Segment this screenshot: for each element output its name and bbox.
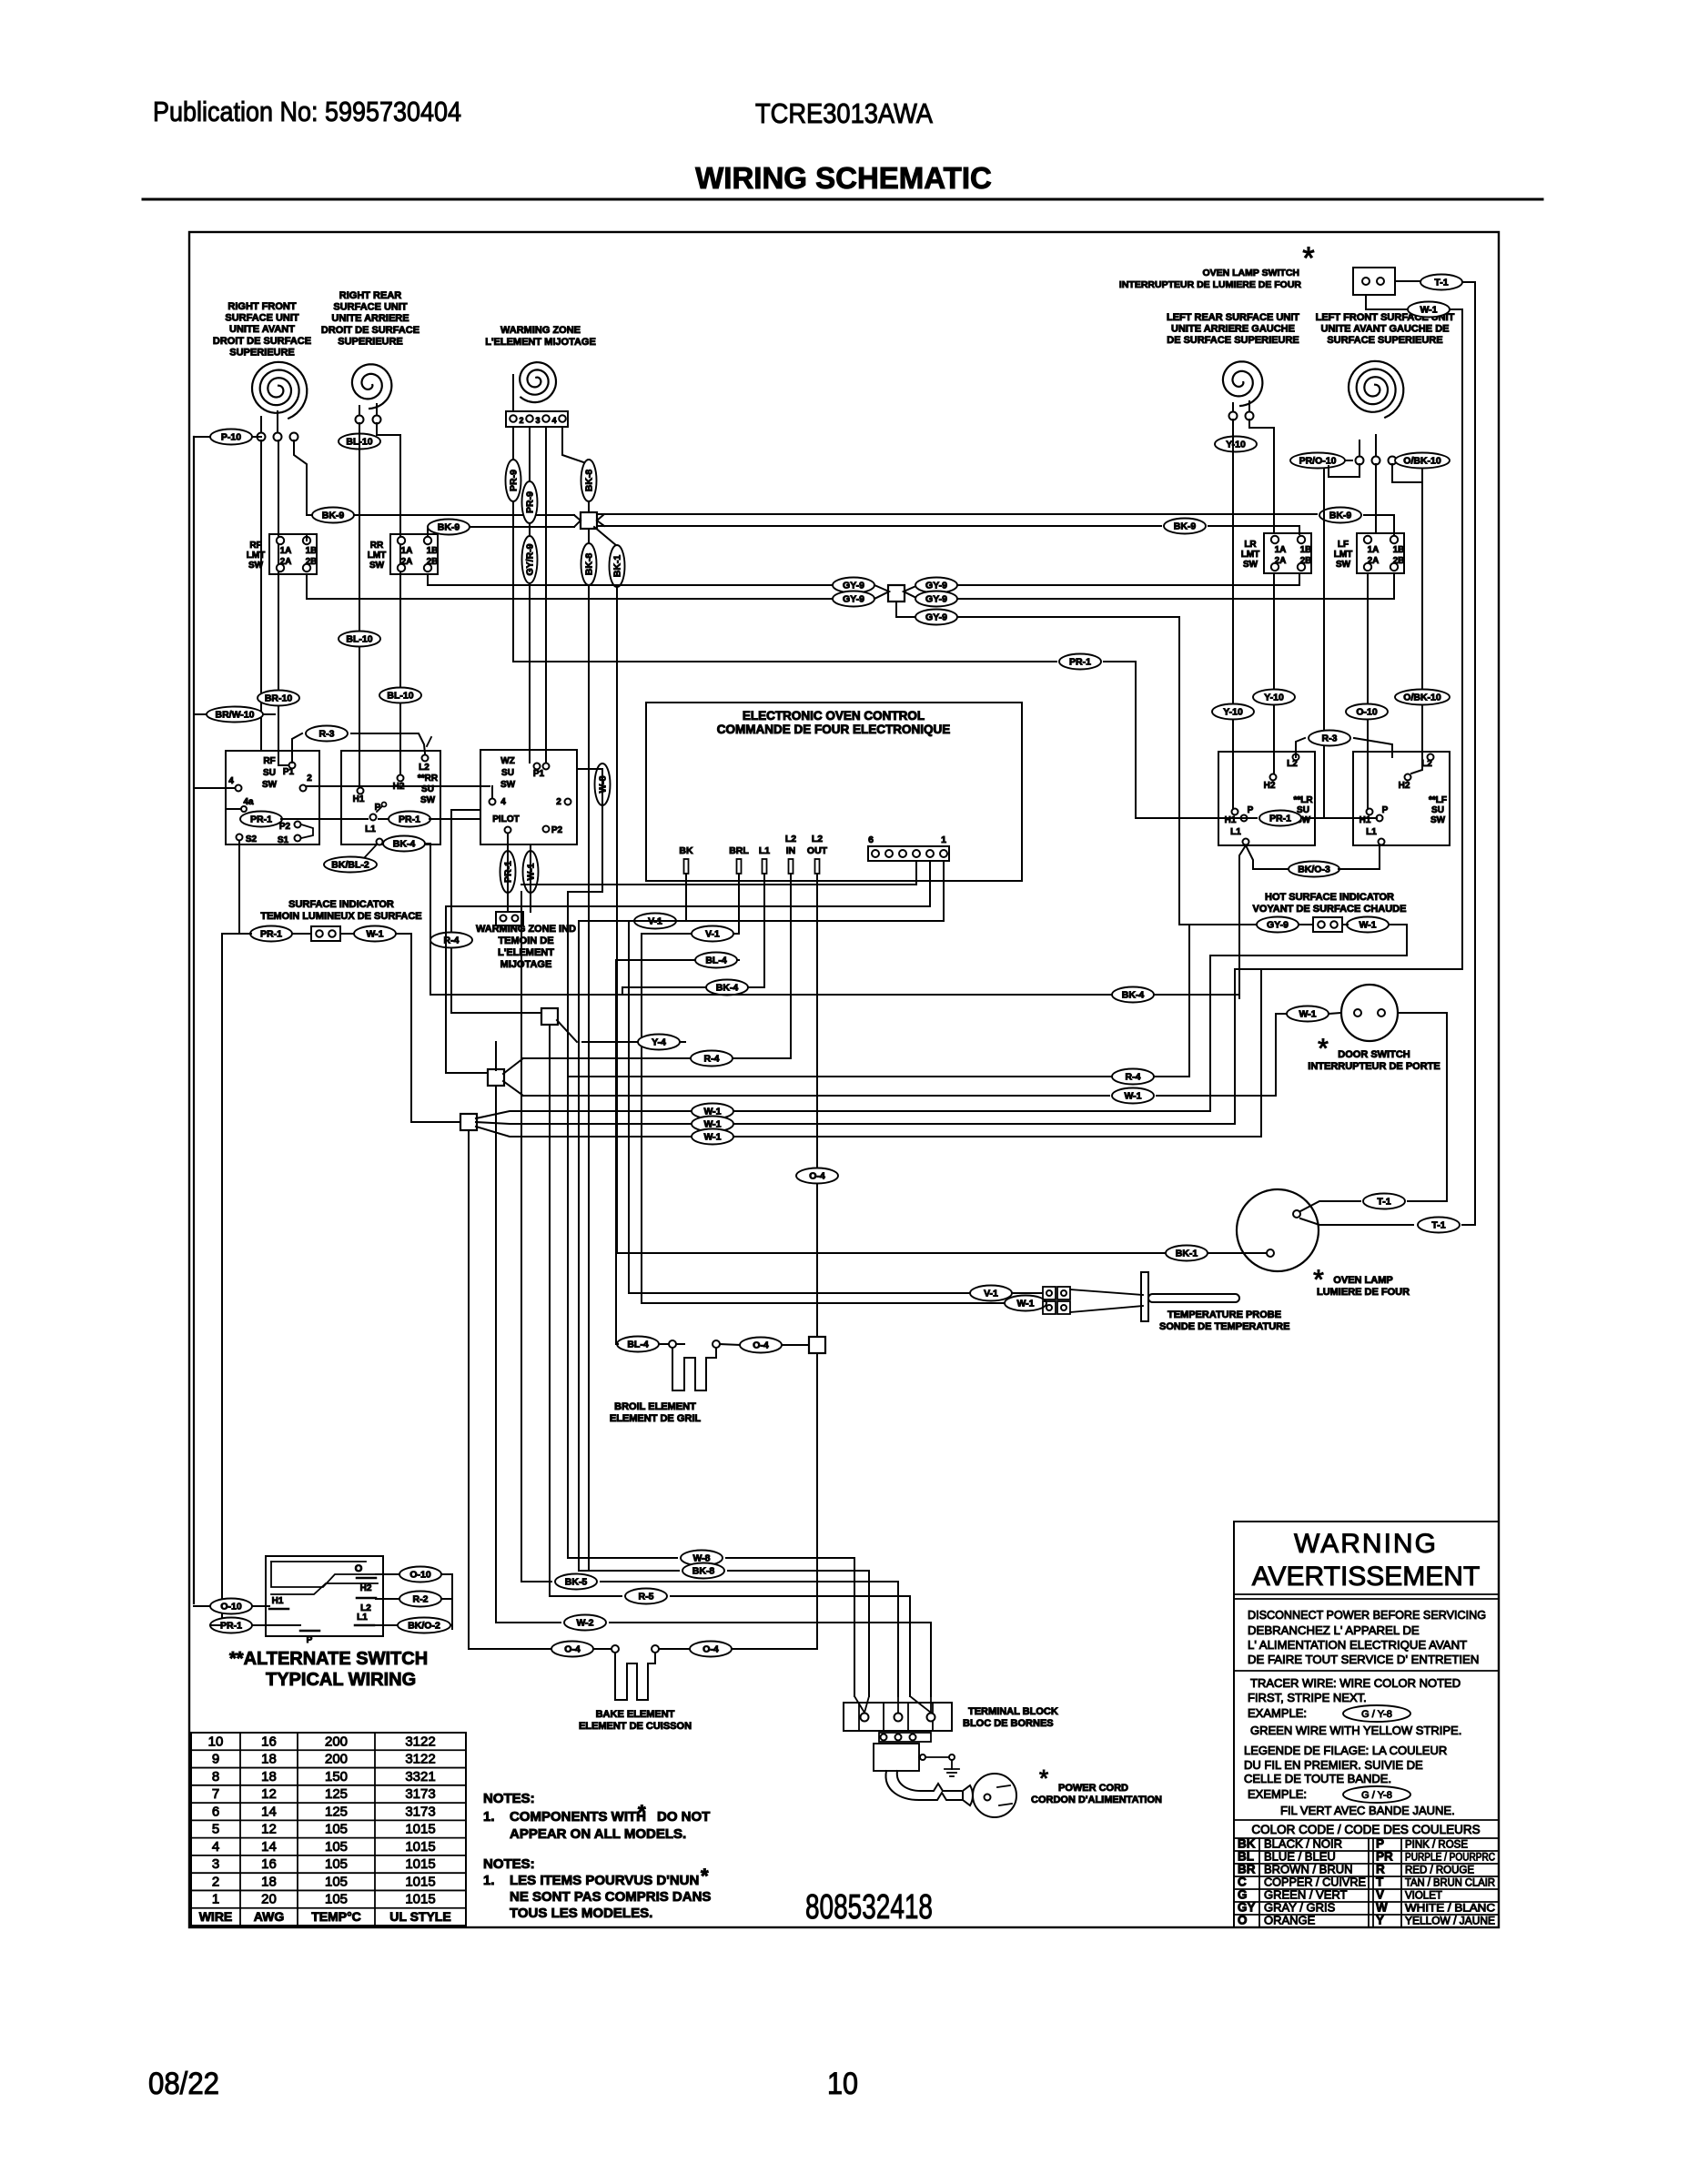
svg-text:16: 16 bbox=[261, 1856, 277, 1872]
svg-text:P: P bbox=[1248, 805, 1254, 815]
svg-text:BK-8: BK-8 bbox=[584, 553, 595, 576]
svg-text:1B: 1B bbox=[1300, 545, 1312, 555]
svg-text:3122: 3122 bbox=[405, 1752, 435, 1767]
svg-text:PR/O-10: PR/O-10 bbox=[1299, 456, 1337, 467]
svg-text:WZ: WZ bbox=[500, 756, 515, 766]
svg-text:SURFACE SUPERIEURE: SURFACE SUPERIEURE bbox=[1327, 335, 1442, 346]
svg-text:W-1: W-1 bbox=[1359, 920, 1376, 931]
svg-text:LF: LF bbox=[1338, 540, 1349, 550]
svg-text:P: P bbox=[307, 1635, 313, 1645]
svg-text:FIRST, STRIPE NEXT.: FIRST, STRIPE NEXT. bbox=[1248, 1691, 1367, 1704]
svg-text:BL-4: BL-4 bbox=[705, 955, 726, 966]
svg-text:10: 10 bbox=[208, 1734, 224, 1749]
svg-text:BAKE ELEMENT: BAKE ELEMENT bbox=[596, 1709, 675, 1720]
svg-text:P: P bbox=[1382, 805, 1389, 815]
svg-text:SUPERIEURE: SUPERIEURE bbox=[338, 336, 403, 347]
svg-text:SW: SW bbox=[500, 780, 516, 790]
svg-text:G / Y-8: G / Y-8 bbox=[1361, 1790, 1392, 1801]
svg-text:6: 6 bbox=[868, 834, 874, 845]
svg-text:*: * bbox=[701, 1865, 709, 1887]
svg-text:Y-10: Y-10 bbox=[1226, 440, 1246, 450]
svg-text:O/BK-10: O/BK-10 bbox=[1403, 693, 1441, 703]
svg-text:GREEN WIRE WITH YELLOW STRIPE.: GREEN WIRE WITH YELLOW STRIPE. bbox=[1250, 1724, 1461, 1737]
svg-text:LUMIERE DE FOUR: LUMIERE DE FOUR bbox=[1317, 1287, 1410, 1298]
svg-text:R-3: R-3 bbox=[319, 729, 335, 740]
svg-text:BL-10: BL-10 bbox=[346, 634, 372, 645]
svg-text:BK/BL-2: BK/BL-2 bbox=[331, 860, 369, 871]
svg-text:VIOLET: VIOLET bbox=[1405, 1890, 1442, 1901]
svg-text:BLACK / NOIR: BLACK / NOIR bbox=[1264, 1836, 1342, 1850]
svg-text:GRAY / GRIS: GRAY / GRIS bbox=[1264, 1900, 1336, 1914]
svg-text:H2: H2 bbox=[1399, 781, 1410, 791]
svg-text:SONDE DE TEMPERATURE: SONDE DE TEMPERATURE bbox=[1159, 1321, 1289, 1332]
svg-text:*: * bbox=[638, 1801, 646, 1824]
svg-text:DE SURFACE SUPERIEURE: DE SURFACE SUPERIEURE bbox=[1167, 335, 1299, 346]
svg-text:TEMPERATURE PROBE: TEMPERATURE PROBE bbox=[1167, 1309, 1281, 1320]
svg-text:G: G bbox=[1238, 1887, 1248, 1901]
svg-text:S2: S2 bbox=[246, 834, 258, 844]
svg-text:BR: BR bbox=[1238, 1862, 1256, 1876]
svg-text:T-1: T-1 bbox=[1434, 278, 1448, 288]
svg-text:**LR: **LR bbox=[1293, 795, 1313, 805]
svg-text:BLOC DE BORNES: BLOC DE BORNES bbox=[963, 1718, 1054, 1729]
svg-text:BK: BK bbox=[1238, 1836, 1256, 1850]
svg-text:DO NOT: DO NOT bbox=[657, 1809, 710, 1825]
svg-text:200: 200 bbox=[325, 1734, 348, 1749]
svg-text:2: 2 bbox=[519, 416, 523, 425]
svg-text:O-10: O-10 bbox=[409, 1570, 431, 1581]
svg-text:GY-9: GY-9 bbox=[925, 612, 947, 623]
svg-text:NOTES:: NOTES: bbox=[483, 1856, 535, 1872]
svg-text:Y-4: Y-4 bbox=[652, 1037, 666, 1048]
svg-text:T-1: T-1 bbox=[1377, 1197, 1390, 1208]
svg-text:Y-10: Y-10 bbox=[1223, 707, 1243, 718]
svg-text:BK-4: BK-4 bbox=[393, 839, 416, 850]
svg-text:OVEN LAMP SWITCH: OVEN LAMP SWITCH bbox=[1202, 268, 1299, 278]
svg-text:BL: BL bbox=[1238, 1849, 1254, 1863]
svg-text:COPPER / CUIVRE: COPPER / CUIVRE bbox=[1264, 1875, 1366, 1888]
svg-text:WIRE: WIRE bbox=[199, 1909, 233, 1924]
svg-text:18: 18 bbox=[261, 1769, 277, 1785]
svg-text:WHITE / BLANC: WHITE / BLANC bbox=[1405, 1903, 1495, 1914]
svg-text:2A: 2A bbox=[1368, 556, 1380, 566]
svg-text:1A: 1A bbox=[280, 546, 292, 556]
svg-text:L1: L1 bbox=[357, 1613, 368, 1623]
svg-text:SW: SW bbox=[420, 795, 436, 805]
svg-text:105: 105 bbox=[325, 1856, 348, 1872]
svg-text:O-4: O-4 bbox=[702, 1644, 719, 1655]
svg-text:DOOR SWITCH: DOOR SWITCH bbox=[1338, 1049, 1410, 1060]
svg-text:6: 6 bbox=[212, 1804, 219, 1819]
svg-text:DE FAIRE TOUT SERVICE D' E: DE FAIRE TOUT SERVICE D' ENTRETIEN bbox=[1248, 1653, 1479, 1666]
svg-text:H1: H1 bbox=[1359, 815, 1371, 825]
svg-text:PR-1: PR-1 bbox=[250, 814, 272, 825]
svg-text:14: 14 bbox=[261, 1839, 277, 1855]
svg-text:SW: SW bbox=[369, 561, 385, 571]
svg-text:PR-1: PR-1 bbox=[260, 929, 282, 940]
svg-text:20: 20 bbox=[261, 1892, 277, 1907]
svg-text:1015: 1015 bbox=[405, 1822, 435, 1837]
svg-text:O: O bbox=[355, 1563, 363, 1574]
svg-text:2B: 2B bbox=[1393, 556, 1405, 566]
svg-text:9: 9 bbox=[212, 1752, 219, 1767]
svg-text:1A: 1A bbox=[1275, 545, 1287, 555]
svg-text:W-1: W-1 bbox=[1420, 305, 1437, 316]
svg-text:DISCONNECT POWER BEFORE SERVIC: DISCONNECT POWER BEFORE SERVICING bbox=[1248, 1608, 1486, 1622]
svg-text:AVERTISSEMENT: AVERTISSEMENT bbox=[1252, 1562, 1481, 1592]
svg-text:**RR: **RR bbox=[418, 773, 439, 784]
svg-text:L1: L1 bbox=[1366, 827, 1377, 837]
svg-text:H1: H1 bbox=[272, 1596, 284, 1606]
svg-text:16: 16 bbox=[261, 1734, 277, 1749]
svg-text:UNITE ARRIERE GAUCHE: UNITE ARRIERE GAUCHE bbox=[1171, 324, 1295, 335]
svg-text:H2: H2 bbox=[1264, 781, 1276, 791]
svg-text:1B: 1B bbox=[306, 546, 318, 556]
svg-text:PILOT: PILOT bbox=[492, 814, 519, 824]
svg-text:1A: 1A bbox=[401, 546, 413, 556]
svg-text:3: 3 bbox=[535, 416, 540, 425]
svg-text:UNITE AVANT GAUCHE DE: UNITE AVANT GAUCHE DE bbox=[1321, 324, 1450, 335]
svg-text:BL-10: BL-10 bbox=[387, 691, 413, 702]
svg-text:GY-9: GY-9 bbox=[1267, 920, 1289, 931]
svg-text:R-5: R-5 bbox=[639, 1592, 654, 1603]
svg-text:R-3: R-3 bbox=[1322, 733, 1338, 744]
svg-text:PR: PR bbox=[1376, 1849, 1393, 1863]
svg-text:1A: 1A bbox=[1368, 545, 1380, 555]
svg-text:TCRE3013AWA: TCRE3013AWA bbox=[755, 97, 933, 129]
svg-text:808532418: 808532418 bbox=[805, 1888, 933, 1926]
svg-text:7: 7 bbox=[212, 1786, 219, 1802]
svg-text:TAN / BRUN CLAIR: TAN / BRUN CLAIR bbox=[1405, 1877, 1495, 1888]
svg-text:BR-10: BR-10 bbox=[265, 693, 293, 704]
svg-text:BK-8: BK-8 bbox=[692, 1566, 715, 1577]
svg-text:PR-1: PR-1 bbox=[1269, 814, 1291, 824]
svg-text:SURFACE UNIT: SURFACE UNIT bbox=[225, 313, 299, 324]
svg-text:C: C bbox=[1238, 1875, 1247, 1888]
svg-text:LES ITEMS POURVUS D'NUN: LES ITEMS POURVUS D'NUN bbox=[510, 1873, 699, 1888]
svg-text:1015: 1015 bbox=[405, 1839, 435, 1855]
svg-text:4: 4 bbox=[228, 776, 234, 786]
svg-text:O/BK-10: O/BK-10 bbox=[1403, 456, 1441, 467]
svg-text:ELECTRONIC OVEN CONTROL: ELECTRONIC OVEN CONTROL bbox=[743, 709, 925, 723]
svg-text:WARNING: WARNING bbox=[1294, 1529, 1438, 1559]
svg-text:*: * bbox=[1318, 1034, 1329, 1064]
svg-text:1015: 1015 bbox=[405, 1892, 435, 1907]
svg-text:1B: 1B bbox=[1393, 545, 1405, 555]
svg-text:L1: L1 bbox=[1230, 827, 1241, 837]
svg-text:NOTES:: NOTES: bbox=[483, 1791, 535, 1806]
svg-text:5: 5 bbox=[212, 1822, 219, 1837]
svg-text:ORANGE: ORANGE bbox=[1264, 1913, 1316, 1926]
svg-text:SU: SU bbox=[421, 784, 434, 794]
svg-text:FIL VERT AVEC BANDE JAUNE.: FIL VERT AVEC BANDE JAUNE. bbox=[1280, 1804, 1455, 1817]
svg-text:P2: P2 bbox=[551, 825, 563, 835]
svg-text:COLOR CODE / CODE DES COULEU: COLOR CODE / CODE DES COULEURS bbox=[1251, 1823, 1480, 1836]
svg-text:OVEN LAMP: OVEN LAMP bbox=[1333, 1275, 1392, 1286]
svg-text:L1: L1 bbox=[365, 824, 376, 834]
svg-text:08/22: 08/22 bbox=[148, 2067, 219, 2101]
svg-text:RED / ROUGE: RED / ROUGE bbox=[1405, 1865, 1474, 1876]
svg-text:8: 8 bbox=[212, 1769, 219, 1785]
svg-text:WARMING ZONE: WARMING ZONE bbox=[500, 325, 581, 336]
svg-text:OUT: OUT bbox=[807, 845, 828, 856]
svg-text:SU: SU bbox=[1431, 805, 1444, 815]
svg-text:105: 105 bbox=[325, 1892, 348, 1907]
svg-text:W-1: W-1 bbox=[1299, 1009, 1316, 1020]
svg-text:W: W bbox=[1376, 1900, 1388, 1914]
svg-text:SW: SW bbox=[248, 561, 264, 571]
svg-text:T: T bbox=[1376, 1875, 1384, 1888]
svg-text:RIGHT REAR: RIGHT REAR bbox=[339, 290, 402, 301]
svg-text:H1: H1 bbox=[1225, 815, 1237, 825]
svg-text:BK-9: BK-9 bbox=[438, 522, 460, 533]
svg-text:125: 125 bbox=[325, 1804, 348, 1819]
svg-text:1015: 1015 bbox=[405, 1874, 435, 1889]
svg-text:LMT: LMT bbox=[1334, 550, 1353, 560]
svg-text:GY-9: GY-9 bbox=[843, 581, 864, 591]
svg-text:O: O bbox=[1238, 1913, 1248, 1926]
svg-text:**LF: **LF bbox=[1429, 795, 1447, 805]
svg-text:L1: L1 bbox=[759, 845, 770, 856]
svg-text:PR-1: PR-1 bbox=[399, 814, 420, 825]
svg-text:3: 3 bbox=[212, 1856, 219, 1872]
svg-text:GY: GY bbox=[1238, 1900, 1256, 1914]
svg-text:2: 2 bbox=[212, 1874, 219, 1889]
svg-text:G / Y-8: G / Y-8 bbox=[1361, 1709, 1392, 1720]
svg-text:TYPICAL WIRING: TYPICAL WIRING bbox=[266, 1670, 416, 1690]
svg-text:UNITE AVANT: UNITE AVANT bbox=[229, 324, 295, 335]
svg-text:MIJOTAGE: MIJOTAGE bbox=[500, 959, 552, 970]
svg-text:LMT: LMT bbox=[368, 551, 387, 561]
svg-text:*: * bbox=[1039, 1764, 1048, 1792]
svg-text:**ALTERNATE SWITCH: **ALTERNATE SWITCH bbox=[229, 1649, 428, 1669]
svg-text:BK-4: BK-4 bbox=[1122, 990, 1145, 1001]
svg-text:3173: 3173 bbox=[405, 1804, 435, 1819]
svg-text:DROIT DE SURFACE: DROIT DE SURFACE bbox=[213, 336, 311, 347]
svg-text:1: 1 bbox=[941, 834, 946, 845]
svg-text:BK-1: BK-1 bbox=[1176, 1249, 1198, 1259]
svg-text:H1: H1 bbox=[353, 794, 365, 804]
svg-text:Y: Y bbox=[1376, 1913, 1384, 1926]
svg-text:SW: SW bbox=[1430, 815, 1446, 825]
svg-text:SURFACE UNIT: SURFACE UNIT bbox=[333, 302, 408, 313]
svg-text:BK-1: BK-1 bbox=[612, 555, 623, 578]
svg-text:V-1: V-1 bbox=[984, 1289, 998, 1299]
svg-text:L2: L2 bbox=[785, 834, 796, 844]
svg-text:2B: 2B bbox=[306, 557, 318, 567]
svg-text:P1: P1 bbox=[533, 769, 545, 779]
svg-text:W-2: W-2 bbox=[576, 1618, 593, 1629]
svg-text:Publication No: 5995730404: Publication No: 5995730404 bbox=[153, 96, 461, 127]
svg-text:BL-4: BL-4 bbox=[627, 1340, 648, 1350]
svg-text:CELLE DE TOUTE BANDE.: CELLE DE TOUTE BANDE. bbox=[1244, 1772, 1391, 1785]
svg-text:PURPLE / POURPRC: PURPLE / POURPRC bbox=[1405, 1852, 1495, 1863]
svg-text:1.: 1. bbox=[483, 1809, 495, 1825]
svg-text:EXAMPLE:: EXAMPLE: bbox=[1248, 1706, 1307, 1720]
svg-text:RF: RF bbox=[249, 541, 261, 551]
svg-text:BK-9: BK-9 bbox=[1174, 521, 1197, 532]
svg-text:TEMP°C: TEMP°C bbox=[311, 1909, 361, 1924]
svg-text:L2: L2 bbox=[812, 834, 823, 844]
svg-text:L2: L2 bbox=[419, 763, 430, 773]
svg-text:150: 150 bbox=[325, 1769, 348, 1785]
svg-text:P: P bbox=[1376, 1836, 1384, 1850]
svg-text:3122: 3122 bbox=[405, 1734, 435, 1749]
svg-text:LEGENDE DE FILAGE: LA COULEUR: LEGENDE DE FILAGE: LA COULEUR bbox=[1244, 1744, 1447, 1757]
svg-text:V-1: V-1 bbox=[705, 929, 720, 940]
svg-text:PR-9: PR-9 bbox=[525, 491, 536, 513]
svg-text:GY-9: GY-9 bbox=[925, 581, 947, 591]
svg-text:O-10: O-10 bbox=[1356, 707, 1378, 718]
svg-text:R-4: R-4 bbox=[704, 1054, 720, 1065]
svg-text:2B: 2B bbox=[1300, 556, 1312, 566]
svg-text:DU FIL EN PREMIER. SUIVIE: DU FIL EN PREMIER. SUIVIE DE bbox=[1244, 1758, 1423, 1772]
svg-text:AWG: AWG bbox=[254, 1909, 285, 1924]
svg-text:105: 105 bbox=[325, 1874, 348, 1889]
svg-text:Y-10: Y-10 bbox=[1264, 693, 1284, 703]
svg-text:GREEN / VERT: GREEN / VERT bbox=[1264, 1887, 1348, 1901]
svg-text:TEMOIN LUMINEUX DE SURFACE: TEMOIN LUMINEUX DE SURFACE bbox=[260, 911, 421, 922]
svg-text:TEMOIN DE: TEMOIN DE bbox=[498, 935, 553, 946]
svg-text:PR-1: PR-1 bbox=[220, 1621, 242, 1632]
svg-text:1: 1 bbox=[212, 1892, 219, 1907]
svg-text:SU: SU bbox=[501, 768, 514, 778]
svg-text:COMMANDE DE FOUR ELECTRONIQUE: COMMANDE DE FOUR ELECTRONIQUE bbox=[717, 723, 951, 736]
svg-text:S1: S1 bbox=[278, 835, 289, 845]
svg-text:BK: BK bbox=[679, 845, 693, 856]
svg-text:DEBRANCHEZ L' APPAREL DE: DEBRANCHEZ L' APPAREL DE bbox=[1248, 1623, 1420, 1637]
svg-text:DROIT DE SURFACE: DROIT DE SURFACE bbox=[321, 325, 419, 336]
svg-text:BK-8: BK-8 bbox=[584, 470, 595, 492]
svg-text:1B: 1B bbox=[427, 546, 439, 556]
svg-text:TRACER WIRE: WIRE COLOR NOTED: TRACER WIRE: WIRE COLOR NOTED bbox=[1250, 1676, 1461, 1690]
svg-text:IN: IN bbox=[786, 845, 796, 856]
svg-text:14: 14 bbox=[261, 1804, 277, 1819]
svg-text:WARMING ZONE IND: WARMING ZONE IND bbox=[476, 924, 576, 935]
svg-text:2: 2 bbox=[307, 773, 312, 784]
svg-text:LMT: LMT bbox=[1241, 550, 1260, 560]
svg-text:INTERRUPTEUR DE PORTE: INTERRUPTEUR DE PORTE bbox=[1308, 1061, 1440, 1072]
svg-text:O-4: O-4 bbox=[753, 1340, 769, 1351]
svg-text:12: 12 bbox=[261, 1786, 277, 1802]
svg-text:RF: RF bbox=[263, 756, 275, 766]
svg-text:1015: 1015 bbox=[405, 1856, 435, 1872]
svg-text:105: 105 bbox=[325, 1839, 348, 1855]
svg-text:O-4: O-4 bbox=[564, 1644, 581, 1655]
svg-text:18: 18 bbox=[261, 1752, 277, 1767]
svg-text:SUPERIEURE: SUPERIEURE bbox=[229, 347, 295, 358]
svg-text:BROWN / BRUN: BROWN / BRUN bbox=[1264, 1862, 1353, 1876]
svg-text:NE SONT PAS COMPRIS DANS: NE SONT PAS COMPRIS DANS bbox=[510, 1889, 711, 1905]
svg-text:APPEAR ON ALL MODELS.: APPEAR ON ALL MODELS. bbox=[510, 1826, 686, 1842]
svg-text:125: 125 bbox=[325, 1786, 348, 1802]
svg-text:W-1: W-1 bbox=[1016, 1299, 1034, 1309]
svg-text:SU: SU bbox=[263, 768, 276, 778]
svg-text:P2: P2 bbox=[279, 822, 291, 832]
svg-text:HOT SURFACE INDICATOR: HOT SURFACE INDICATOR bbox=[1265, 892, 1394, 903]
svg-text:O-10: O-10 bbox=[220, 1602, 242, 1613]
svg-text:LEFT REAR SURFACE UNIT: LEFT REAR SURFACE UNIT bbox=[1167, 312, 1299, 323]
svg-text:2A: 2A bbox=[1275, 556, 1287, 566]
svg-text:2A: 2A bbox=[280, 557, 292, 567]
svg-text:BK/O-2: BK/O-2 bbox=[408, 1621, 440, 1632]
svg-text:PR-9: PR-9 bbox=[509, 470, 520, 491]
svg-text:UNITE ARRIERE: UNITE ARRIERE bbox=[331, 313, 409, 324]
svg-text:2: 2 bbox=[556, 797, 561, 807]
svg-text:VOYANT DE SURFACE CHAUDE: VOYANT DE SURFACE CHAUDE bbox=[1253, 904, 1407, 915]
svg-text:H2: H2 bbox=[393, 782, 405, 792]
svg-text:GY/R-9: GY/R-9 bbox=[525, 543, 536, 575]
svg-text:105: 105 bbox=[325, 1822, 348, 1837]
svg-text:BK-4: BK-4 bbox=[716, 983, 739, 994]
svg-text:4: 4 bbox=[551, 416, 556, 425]
svg-text:R-2: R-2 bbox=[413, 1594, 429, 1605]
svg-text:SW: SW bbox=[262, 780, 278, 790]
svg-text:UL STYLE: UL STYLE bbox=[389, 1909, 450, 1924]
svg-text:BR/W-10: BR/W-10 bbox=[216, 710, 255, 721]
svg-text:L' ALIMENTATION ELECTRIQUE A: L' ALIMENTATION ELECTRIQUE AVANT bbox=[1248, 1638, 1467, 1652]
svg-text:WIRING SCHEMATIC: WIRING SCHEMATIC bbox=[695, 161, 992, 195]
svg-text:CORDON D'ALIMENTATION: CORDON D'ALIMENTATION bbox=[1031, 1795, 1162, 1805]
svg-text:ELEMENT DE CUISSON: ELEMENT DE CUISSON bbox=[579, 1721, 692, 1732]
svg-text:EXEMPLE:: EXEMPLE: bbox=[1248, 1787, 1307, 1801]
svg-text:L'ELEMENT: L'ELEMENT bbox=[498, 947, 554, 958]
svg-text:COMPONENTS WITH: COMPONENTS WITH bbox=[510, 1809, 646, 1825]
svg-text:SURFACE INDICATOR: SURFACE INDICATOR bbox=[288, 899, 394, 910]
svg-text:PINK / ROSE: PINK / ROSE bbox=[1405, 1839, 1468, 1850]
svg-text:P-10: P-10 bbox=[221, 432, 241, 443]
svg-text:LR: LR bbox=[1244, 540, 1257, 550]
svg-text:TERMINAL BLOCK: TERMINAL BLOCK bbox=[968, 1706, 1058, 1717]
svg-text:H2: H2 bbox=[360, 1583, 372, 1593]
svg-text:T-1: T-1 bbox=[1431, 1220, 1445, 1231]
svg-text:BK/O-3: BK/O-3 bbox=[1298, 864, 1330, 875]
svg-text:V: V bbox=[1376, 1887, 1384, 1901]
svg-text:TOUS LES MODELES.: TOUS LES MODELES. bbox=[510, 1906, 652, 1921]
svg-text:W-1: W-1 bbox=[1124, 1091, 1141, 1102]
svg-text:LMT: LMT bbox=[247, 551, 266, 561]
svg-text:4: 4 bbox=[212, 1839, 219, 1855]
svg-text:O-4: O-4 bbox=[809, 1171, 825, 1182]
svg-text:W-1: W-1 bbox=[703, 1132, 721, 1143]
svg-text:R-4: R-4 bbox=[1126, 1072, 1141, 1083]
svg-text:W-1: W-1 bbox=[366, 929, 383, 940]
svg-text:12: 12 bbox=[261, 1822, 277, 1837]
svg-text:BK-5: BK-5 bbox=[565, 1577, 588, 1588]
svg-text:BROIL ELEMENT: BROIL ELEMENT bbox=[614, 1401, 696, 1412]
svg-text:L'ELEMENT MIJOTAGE: L'ELEMENT MIJOTAGE bbox=[485, 337, 596, 348]
svg-text:GY-9: GY-9 bbox=[925, 594, 947, 605]
svg-text:RR: RR bbox=[370, 541, 384, 551]
svg-text:3173: 3173 bbox=[405, 1786, 435, 1802]
svg-text:SW: SW bbox=[1243, 560, 1258, 570]
svg-text:BK-9: BK-9 bbox=[1329, 511, 1352, 521]
svg-text:POWER CORD: POWER CORD bbox=[1058, 1783, 1128, 1794]
svg-text:BRL: BRL bbox=[729, 845, 749, 856]
svg-text:1.: 1. bbox=[483, 1873, 495, 1888]
svg-text:2A: 2A bbox=[401, 557, 413, 567]
svg-text:YELLOW / JAUNE: YELLOW / JAUNE bbox=[1405, 1916, 1495, 1926]
svg-text:4: 4 bbox=[500, 797, 506, 807]
svg-text:*: * bbox=[1302, 241, 1314, 276]
svg-text:RIGHT FRONT: RIGHT FRONT bbox=[227, 301, 296, 312]
svg-text:18: 18 bbox=[261, 1874, 277, 1889]
svg-text:SW: SW bbox=[1336, 560, 1351, 570]
svg-text:PR-1: PR-1 bbox=[1069, 657, 1091, 668]
svg-text:2B: 2B bbox=[427, 557, 439, 567]
svg-text:GY-9: GY-9 bbox=[843, 594, 864, 605]
svg-text:INTERRUPTEUR DE LUMIERE DE FOU: INTERRUPTEUR DE LUMIERE DE FOUR bbox=[1119, 279, 1302, 290]
